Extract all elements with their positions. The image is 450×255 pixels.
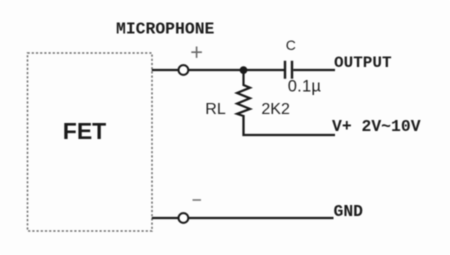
microphone module dashed box: [28, 53, 153, 231]
svg-text:C: C: [286, 37, 296, 53]
resistor RL zigzag: [237, 72, 250, 116]
wire: capacitor to OUTPUT: [293, 69, 335, 71]
svg-text:0.1µ: 0.1µ: [288, 78, 322, 96]
svg-text:2K2: 2K2: [261, 101, 290, 118]
wire: bottom rail from FET box to GND: [152, 217, 334, 219]
minus polarity mark: [193, 199, 202, 201]
svg-text:V+ 2V~10V: V+ 2V~10V: [332, 117, 421, 136]
svg-text:FET: FET: [63, 118, 106, 144]
- terminal circle: [179, 213, 189, 223]
node junction at resistor tap: [240, 66, 248, 74]
svg-text:RL: RL: [205, 101, 226, 118]
wire: resistor bottom to V+ rail: [244, 115, 336, 135]
svg-text:OUTPUT: OUTPUT: [334, 54, 392, 72]
wire: top rail from FET box to capacitor: [152, 69, 284, 71]
+ terminal circle: [179, 65, 189, 75]
svg-text:GND: GND: [334, 202, 364, 221]
svg-text:MICROPHONE: MICROPHONE: [116, 20, 215, 39]
capacitor C plates: [285, 61, 292, 79]
plus polarity mark: [191, 47, 202, 58]
